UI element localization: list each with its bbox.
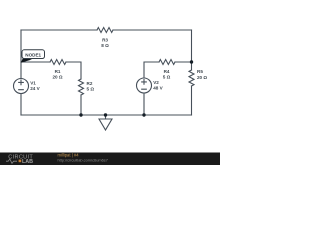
svg-text:5 Ω: 5 Ω <box>163 75 171 80</box>
resistor R1 <box>50 60 66 65</box>
ground <box>99 115 112 130</box>
svg-text:20 Ω: 20 Ω <box>52 75 62 80</box>
resistor R3 <box>97 28 113 33</box>
wire node1 horizontal <box>21 61 50 63</box>
svg-text:LAB: LAB <box>22 159 33 165</box>
svg-text:V1: V1 <box>30 81 36 86</box>
svg-text:R4: R4 <box>164 69 170 74</box>
node V2-bottom junction <box>142 113 145 116</box>
svg-text:24 V: 24 V <box>30 86 40 91</box>
svg-text:NODE1: NODE1 <box>25 53 41 58</box>
wire R4 to right wire <box>175 61 192 63</box>
node A NODE1 label box <box>22 50 45 59</box>
resistor R2 <box>79 79 84 95</box>
node R2-bottom junction <box>79 113 82 116</box>
resistor R4 <box>159 60 175 65</box>
svg-text:R5: R5 <box>197 69 203 74</box>
wire bottom horizontal <box>21 114 192 116</box>
svg-text:8 Ω: 8 Ω <box>101 43 109 48</box>
watermark CircuitLab logo <box>6 154 33 165</box>
wire top horizontal left of R3 <box>21 29 97 31</box>
svg-text:R2: R2 <box>87 81 93 86</box>
wire V1 bottom lead <box>20 94 22 116</box>
wire right vertical upper <box>191 30 193 70</box>
wire R2 bottom <box>80 95 82 115</box>
wire right vertical lower <box>191 86 193 115</box>
wire V2 top lead and corner <box>144 62 159 78</box>
node A NODE1 flag arrow <box>21 58 32 63</box>
svg-text:V2: V2 <box>153 80 159 85</box>
labels <box>30 38 207 92</box>
svg-text:48 V: 48 V <box>153 86 163 91</box>
resistor R5 <box>189 70 194 86</box>
node R4-right junction <box>190 60 193 63</box>
wire R1 to R2 corner <box>66 62 81 79</box>
svg-text:5 Ω: 5 Ω <box>87 87 95 92</box>
node ground junction <box>104 113 107 116</box>
wire top left vertical <box>20 30 22 79</box>
svg-text:R1: R1 <box>55 69 61 74</box>
node junction dots <box>79 60 193 116</box>
voltage source V2 <box>137 78 152 93</box>
voltage source V1 <box>14 79 29 94</box>
wire V2 bottom lead <box>143 93 145 115</box>
svg-text:20 Ω: 20 Ω <box>197 75 207 80</box>
watermark bar <box>0 153 220 166</box>
svg-text:http://circuitlab.com/c6um6s7: http://circuitlab.com/c6um6s7 <box>58 157 108 162</box>
wire top horizontal right of R3 <box>113 29 192 31</box>
